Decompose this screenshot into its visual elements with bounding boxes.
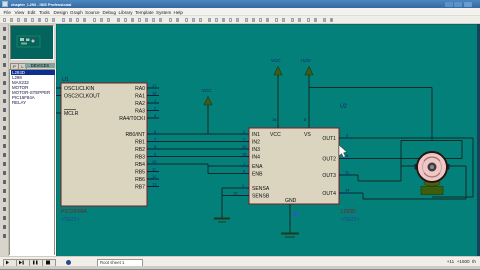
- svg-text:OUT1: OUT1: [322, 136, 336, 142]
- svg-text:RB0/INT: RB0/INT: [125, 132, 145, 138]
- svg-text:<TEXT>: <TEXT>: [61, 217, 80, 223]
- svg-text:OUT2: OUT2: [322, 157, 336, 163]
- svg-text:+12V: +12V: [300, 58, 312, 63]
- svg-text:ENB: ENB: [252, 172, 263, 178]
- svg-text:SENSA: SENSA: [252, 186, 270, 192]
- svg-text:IN1: IN1: [252, 132, 260, 138]
- svg-text:U1: U1: [62, 77, 69, 83]
- svg-text:RB1: RB1: [135, 140, 145, 146]
- svg-text:RB2: RB2: [135, 147, 145, 153]
- svg-text:ENA: ENA: [252, 164, 263, 170]
- svg-text:10: 10: [152, 159, 157, 164]
- svg-text:RB6: RB6: [135, 177, 145, 183]
- svg-text:3: 3: [154, 113, 157, 118]
- svg-text:6: 6: [346, 153, 349, 158]
- svg-text:1: 1: [154, 98, 157, 103]
- svg-text:MCLR: MCLR: [64, 111, 79, 117]
- svg-text:RA2: RA2: [135, 101, 145, 107]
- svg-text:2: 2: [154, 106, 157, 111]
- svg-text:9: 9: [154, 152, 157, 157]
- svg-text:15: 15: [233, 191, 238, 196]
- svg-text:IN4: IN4: [252, 155, 260, 161]
- svg-text:RB7: RB7: [135, 185, 145, 191]
- svg-text:OSC1/CLKIN: OSC1/CLKIN: [64, 86, 95, 92]
- svg-text:9: 9: [243, 169, 246, 174]
- svg-text:7: 7: [154, 137, 157, 142]
- svg-text:3: 3: [346, 133, 349, 138]
- svg-text:10: 10: [242, 144, 247, 149]
- svg-text:7: 7: [243, 137, 246, 142]
- svg-text:U2: U2: [340, 104, 347, 110]
- svg-text:VCC: VCC: [270, 132, 281, 138]
- svg-text:VCC: VCC: [271, 58, 281, 63]
- svg-text:GND: GND: [285, 198, 297, 204]
- svg-text:L293D: L293D: [341, 209, 356, 215]
- svg-text:8: 8: [154, 144, 157, 149]
- svg-text:13: 13: [152, 182, 157, 187]
- svg-text:VCC: VCC: [202, 88, 212, 93]
- svg-text:RA3: RA3: [135, 109, 145, 115]
- svg-text:1: 1: [243, 161, 246, 166]
- svg-text:18: 18: [152, 91, 157, 96]
- svg-text:2: 2: [243, 129, 246, 134]
- svg-text:PIC16F84A: PIC16F84A: [61, 209, 88, 215]
- svg-text:RB4: RB4: [135, 162, 145, 168]
- svg-text:VS: VS: [304, 132, 311, 138]
- svg-text:RA1: RA1: [135, 94, 145, 100]
- svg-text:RA0: RA0: [135, 86, 145, 92]
- svg-text:17: 17: [152, 83, 157, 88]
- svg-text:11: 11: [152, 167, 157, 172]
- svg-text:OUT3: OUT3: [322, 173, 336, 179]
- svg-text:11: 11: [345, 170, 350, 175]
- svg-text:8: 8: [304, 117, 307, 122]
- svg-text:RB3: RB3: [135, 155, 145, 161]
- svg-text:IN2: IN2: [252, 140, 260, 146]
- svg-text:OUT4: OUT4: [322, 191, 336, 197]
- svg-text:6: 6: [154, 129, 157, 134]
- svg-text:15: 15: [242, 152, 247, 157]
- svg-text:16: 16: [272, 117, 277, 122]
- svg-text:1: 1: [242, 183, 245, 188]
- svg-text:<TEXT>: <TEXT>: [341, 217, 360, 223]
- svg-text:RB5: RB5: [135, 170, 145, 176]
- svg-text:12: 12: [152, 174, 157, 179]
- svg-text:IN3: IN3: [252, 147, 260, 153]
- svg-text:RA4/T0CKI: RA4/T0CKI: [119, 116, 145, 122]
- svg-text:14: 14: [345, 188, 350, 193]
- svg-text:OSC2/CLKOUT: OSC2/CLKOUT: [64, 94, 100, 100]
- svg-text:SENSB: SENSB: [252, 194, 270, 200]
